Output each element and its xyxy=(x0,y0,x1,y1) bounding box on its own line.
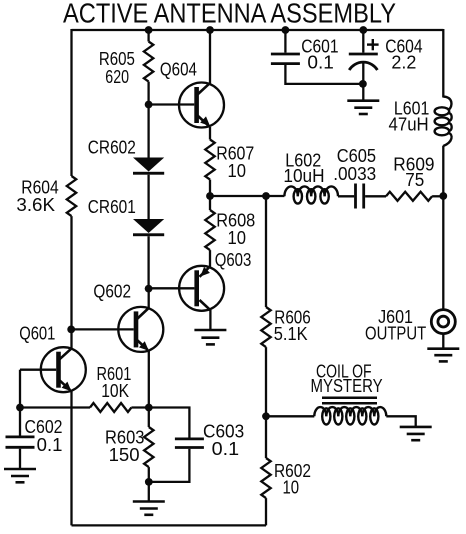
resistor R607 xyxy=(205,140,214,180)
wire R603 top stub xyxy=(148,408,150,428)
ground right of coil of mystery xyxy=(400,427,432,440)
capacitor C601 xyxy=(271,30,363,84)
svg-text:0.1: 0.1 xyxy=(212,438,240,459)
svg-text:10uH: 10uH xyxy=(283,165,324,186)
node L602 / R606 junction xyxy=(262,192,270,200)
wire left rail upper xyxy=(70,29,72,176)
svg-text:CR602: CR602 xyxy=(88,137,136,158)
transistor Q603 xyxy=(149,266,225,311)
resistor R608 xyxy=(205,210,214,250)
inductor L602 xyxy=(284,186,338,203)
svg-text:10K: 10K xyxy=(101,380,129,401)
node top rail / C601 xyxy=(282,26,290,34)
wire CR601 cathode down to node xyxy=(147,236,149,288)
plus sign of C604 xyxy=(367,39,379,50)
resistor R604 xyxy=(67,176,76,216)
svg-text:10: 10 xyxy=(228,227,247,248)
resistor R609 xyxy=(386,192,432,201)
wire node down to Q602 collector xyxy=(148,289,150,308)
node Q601-base/R601/C602 junction xyxy=(16,404,24,412)
svg-text:10: 10 xyxy=(283,477,300,498)
ground below C604 xyxy=(347,101,379,114)
svg-text:OUTPUT: OUTPUT xyxy=(365,323,426,344)
node CR601/Q603-base/Q602-collector junction xyxy=(145,285,153,293)
wire coil to ground xyxy=(386,416,415,427)
node C601/C604 bottom junction xyxy=(359,80,367,88)
wire R605 bottom to node xyxy=(147,82,149,105)
svg-text:MYSTERY: MYSTERY xyxy=(311,375,383,396)
connector J601 xyxy=(431,310,455,334)
wire R606 top stub xyxy=(265,196,267,307)
wire CR602 cathode to CR601 anode xyxy=(147,175,149,220)
wire J601 to ground xyxy=(442,334,444,349)
svg-text:0.1: 0.1 xyxy=(307,52,334,73)
svg-text:620: 620 xyxy=(105,66,129,87)
wire C603 bottom branch xyxy=(149,449,190,482)
wire node to coil of mystery xyxy=(266,415,314,417)
resistor R603 xyxy=(144,427,153,467)
node R603/C603 bottom junction xyxy=(145,478,153,486)
wire Q603 collector down xyxy=(209,310,211,330)
svg-text:3.6K: 3.6K xyxy=(16,194,55,215)
wire Q602 emitter down to R601 node xyxy=(148,351,150,408)
inductor coil of mystery xyxy=(314,407,386,424)
wire R609 to right rail xyxy=(432,195,443,197)
svg-text:0.1: 0.1 xyxy=(37,434,63,455)
wire Q604 emitter down to R607 xyxy=(209,127,211,140)
wire R608 top stub xyxy=(209,196,211,210)
wire right rail upper xyxy=(442,29,444,98)
wire C603 top branch xyxy=(149,408,190,438)
node left-rail/Q602-base junction xyxy=(67,326,75,334)
wire node to CR602 anode xyxy=(147,105,149,159)
svg-text:Q603: Q603 xyxy=(215,249,252,270)
wire R601 to node xyxy=(131,406,148,408)
node R606/R602/coil junction xyxy=(262,412,270,420)
diode CR601 xyxy=(133,219,164,236)
wire node to R601 xyxy=(20,406,90,408)
wire top rail xyxy=(72,29,444,31)
ground below Q603 xyxy=(194,330,226,344)
node R601/Q602-emitter/R603/C603 junction xyxy=(145,404,153,412)
transistor Q601 xyxy=(20,347,86,392)
svg-text:ACTIVE ANTENNA ASSEMBLY: ACTIVE ANTENNA ASSEMBLY xyxy=(63,0,396,29)
ground below C602 xyxy=(4,469,36,482)
wire Q604 collector up to top rail xyxy=(209,30,211,84)
node R607/R608/L602 junction xyxy=(206,192,214,200)
transistor Q602 xyxy=(72,307,164,352)
wire C605 to R609 xyxy=(365,195,386,197)
wire R603 bottom to node xyxy=(148,467,150,482)
wire right rail middle xyxy=(442,146,444,309)
wire R607 bottom to node xyxy=(209,180,211,196)
node top rail / R605 xyxy=(145,26,153,34)
capacitor C602 xyxy=(6,408,35,470)
node top rail / C604 xyxy=(359,26,367,34)
node right rail / R609 junction xyxy=(439,192,447,200)
wire Q601 base left and down xyxy=(19,370,21,408)
resistor R605 xyxy=(144,42,153,82)
resistor R602 xyxy=(261,458,270,498)
svg-text:75: 75 xyxy=(405,169,424,190)
wire R608 bottom to Q603 emitter xyxy=(209,250,211,266)
wire R602 bottom to bottom rail xyxy=(265,498,267,525)
wire R607 node to L602 xyxy=(210,195,284,197)
transistor Q604 xyxy=(149,83,224,128)
node top rail / Q604 collector xyxy=(206,26,214,34)
core bars of coil of mystery xyxy=(322,398,377,403)
svg-text:150: 150 xyxy=(109,444,140,465)
svg-text:10: 10 xyxy=(228,160,247,181)
svg-text:Q602: Q602 xyxy=(93,281,131,302)
wire Q601 emitter down left rail to bottom rail xyxy=(70,391,72,525)
svg-text:2.2: 2.2 xyxy=(391,52,416,73)
wire node down to ground xyxy=(148,482,150,502)
wire left rail lower xyxy=(70,216,72,348)
svg-text:Q604: Q604 xyxy=(160,59,197,80)
svg-text:47uH: 47uH xyxy=(389,113,429,134)
wire R606 bottom to node xyxy=(265,347,267,416)
svg-text:Q601: Q601 xyxy=(19,323,55,344)
wire L602 to C605 xyxy=(338,195,354,197)
wire R605 top stub xyxy=(147,30,149,42)
wire R602 top stub xyxy=(265,416,267,458)
capacitor C603 xyxy=(175,439,204,448)
capacitor C605 xyxy=(356,184,364,209)
diode CR602 xyxy=(133,158,164,175)
inductor L601 xyxy=(435,97,452,146)
node R605/Q604-base junction xyxy=(145,101,153,109)
svg-text:.0033: .0033 xyxy=(333,163,376,184)
svg-text:5.1K: 5.1K xyxy=(274,323,308,344)
ground below J601 xyxy=(427,349,459,362)
resistor R601 xyxy=(90,403,131,412)
wire bottom rail xyxy=(72,524,267,526)
capacitor C604 polarized xyxy=(349,30,378,101)
svg-text:CR601: CR601 xyxy=(88,196,136,217)
ground below R603 xyxy=(133,502,165,515)
resistor R606 xyxy=(261,307,270,347)
